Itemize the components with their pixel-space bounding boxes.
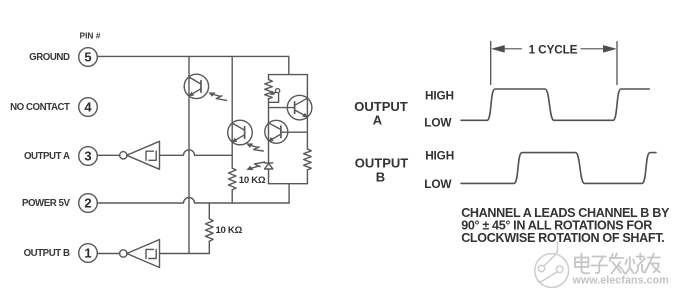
waveform section [461, 42, 656, 184]
wire vertical net V2 ground to Q2 to R3 [231, 56, 233, 168]
light arrow out of LED [247, 162, 265, 170]
phototransistor Q1 [184, 74, 208, 98]
pin 5 circle [79, 48, 98, 67]
wire pin 1 to buffer B input [97, 253, 120, 255]
svg-text:LOW: LOW [424, 115, 452, 129]
svg-text:3: 3 [84, 149, 91, 164]
buffer A hysteresis symbol [146, 151, 156, 160]
svg-text:HIGH: HIGH [425, 148, 454, 162]
cycle left tick [490, 42, 492, 85]
transistor T2 [287, 95, 312, 120]
waveform channel A trace [461, 89, 649, 120]
svg-text:2: 2 [84, 196, 91, 211]
buffer B bubble [120, 250, 127, 257]
svg-text:PIN #: PIN # [80, 31, 101, 41]
char 烧 [626, 257, 635, 274]
pin 1 circle [79, 244, 98, 263]
pin 3 circle [79, 147, 98, 166]
svg-text:A: A [373, 112, 383, 127]
watermark chinese characters [575, 254, 660, 274]
wire left branch upper stub [268, 75, 270, 80]
svg-text:OUTPUT A: OUTPUT A [24, 151, 70, 162]
R1 adjust tap arrow with circle [270, 89, 280, 95]
resistor R3 10 KΩ [228, 168, 236, 190]
svg-text:NO CONTACT: NO CONTACT [10, 102, 70, 113]
watermark logo circle [535, 242, 569, 288]
wire buffer B output to R4 bottom [160, 253, 210, 255]
LED D1 [264, 163, 273, 184]
cycle dimension arrows [504, 48, 522, 50]
LED block bottom edge [269, 183, 308, 185]
svg-text:10 KΩ: 10 KΩ [216, 225, 243, 236]
resistor R4 10 KΩ [206, 219, 214, 242]
svg-text:OUTPUT: OUTPUT [355, 155, 409, 170]
waveform channel B trace [461, 153, 656, 184]
wire pin 2 power net with hop over V1 [97, 198, 289, 204]
wire vertical net V1 through Q1 down to output B wire [188, 56, 190, 253]
svg-text:POWER 5V: POWER 5V [22, 198, 71, 209]
svg-text:HIGH: HIGH [425, 88, 454, 102]
wire ground net drop to LED block [288, 56, 290, 74]
light arrow into Q1 [209, 93, 227, 101]
svg-text:10 KΩ: 10 KΩ [239, 175, 266, 186]
buffer B hysteresis symbol [146, 249, 156, 258]
svg-text:B: B [376, 169, 385, 184]
pin 2 circle [79, 194, 98, 213]
wire R3 bottom to power net [231, 190, 233, 203]
wire T1 base to right branch [281, 131, 308, 133]
wire T2 base from left branch [269, 107, 295, 109]
phototransistor Q2 [228, 120, 253, 145]
svg-text:1 CYCLE: 1 CYCLE [529, 42, 578, 56]
pin 4 circle [79, 98, 98, 117]
LED block top edge [269, 74, 308, 76]
buffer B triangle [127, 240, 160, 268]
svg-text:4: 4 [84, 100, 92, 115]
wire R2 bottom to block bottom edge [306, 171, 308, 184]
light arrow into Q2 [247, 144, 264, 151]
svg-text:GROUND: GROUND [29, 52, 70, 63]
wire ground net horizontal from pin 5 [97, 55, 288, 57]
wire R4 bottom to output B wire [208, 241, 210, 253]
svg-text:www.elecfans.com: www.elecfans.com [572, 274, 669, 286]
wire left branch R1 to LED [268, 99, 270, 163]
resistor R1 adjustable [265, 80, 273, 99]
char 友 [645, 254, 660, 273]
svg-text:LOW: LOW [424, 177, 452, 191]
resistor R2 [304, 149, 312, 170]
wire buffer A output with hop over V1 [160, 150, 233, 156]
cycle right tick [616, 42, 618, 85]
wire pin 3 to buffer A input [97, 154, 120, 156]
char 子 [591, 257, 607, 274]
char 发 [610, 254, 625, 274]
svg-text:1: 1 [84, 246, 91, 261]
wire R1 tap loop [269, 93, 279, 103]
wire power net to R4 top [208, 203, 210, 219]
buffer A bubble [120, 152, 127, 159]
svg-text:OUTPUT B: OUTPUT B [24, 248, 70, 259]
wire power net rise to LED block bottom [288, 184, 290, 203]
char 电 [582, 254, 590, 274]
buffer A triangle [127, 141, 160, 169]
svg-text:5: 5 [84, 50, 91, 65]
svg-text:CLOCKWISE ROTATION OF SHAFT.: CLOCKWISE ROTATION OF SHAFT. [461, 231, 664, 245]
wire right branch ground to R2 [306, 75, 308, 149]
transistor T1 [265, 120, 288, 143]
